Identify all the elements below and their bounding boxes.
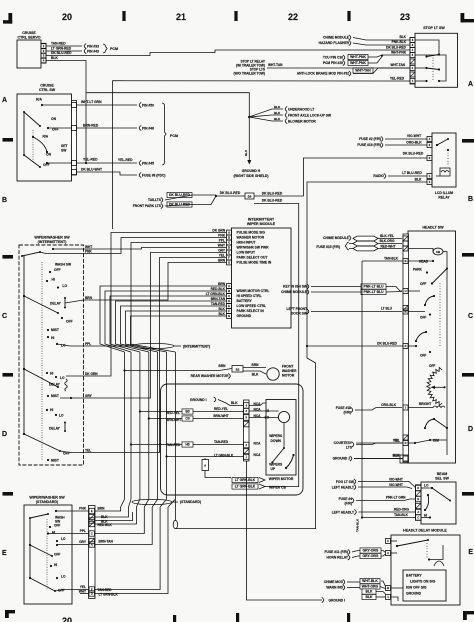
svg-text:BRN-RED: BRN-RED bbox=[83, 124, 99, 128]
svg-text:SET: SET bbox=[61, 144, 67, 148]
svg-text:C: C bbox=[228, 294, 230, 298]
svg-text:PPL: PPL bbox=[219, 239, 225, 243]
svg-text:DELAY: DELAY bbox=[50, 302, 62, 306]
svg-text:WHT-PNK: WHT-PNK bbox=[350, 55, 366, 59]
svg-text:LEFT FRONT: LEFT FRONT bbox=[286, 307, 307, 311]
svg-text:DK BLU-RED: DK BLU-RED bbox=[403, 152, 424, 156]
svg-text:PNK-BLK: PNK-BLK bbox=[392, 40, 407, 44]
svg-text:REAR WASHER MOTOR: REAR WASHER MOTOR bbox=[191, 374, 229, 378]
svg-text:IGN OFF SIG: IGN OFF SIG bbox=[406, 586, 427, 590]
svg-text:D: D bbox=[228, 299, 230, 303]
svg-text:GROUND H: GROUND H bbox=[242, 169, 261, 173]
svg-text:BLK-ORG: BLK-ORG bbox=[380, 239, 395, 243]
svg-text:TAILLTS: TAILLTS bbox=[148, 198, 162, 202]
svg-text:DK BLU-WHT: DK BLU-WHT bbox=[81, 168, 102, 172]
svg-text:(STANDARD): (STANDARD) bbox=[36, 500, 59, 504]
svg-text:BLK: BLK bbox=[366, 590, 374, 594]
svg-text:C: C bbox=[417, 516, 419, 520]
svg-text:CRUISE: CRUISE bbox=[40, 84, 54, 88]
svg-text:R/A: R/A bbox=[43, 135, 49, 139]
svg-text:PCM PIN #29: PCM PIN #29 bbox=[323, 61, 343, 65]
svg-text:A: A bbox=[204, 464, 206, 468]
svg-text:OFF: OFF bbox=[66, 320, 73, 324]
svg-text:GROUND J: GROUND J bbox=[333, 457, 351, 461]
svg-text:LO: LO bbox=[63, 284, 68, 288]
svg-text:OFF: OFF bbox=[420, 354, 426, 358]
svg-text:WHT-PNK: WHT-PNK bbox=[350, 61, 366, 65]
svg-text:(W/O TRAILER TOW): (W/O TRAILER TOW) bbox=[234, 72, 265, 76]
svg-text:PPL: PPL bbox=[80, 529, 86, 533]
svg-text:21: 21 bbox=[176, 12, 186, 22]
svg-text:DELAY: DELAY bbox=[49, 427, 61, 431]
svg-text:CTRL SERVO: CTRL SERVO bbox=[17, 36, 40, 40]
svg-text:CRUISE: CRUISE bbox=[22, 31, 36, 35]
svg-text:BRN-WHT: BRN-WHT bbox=[213, 414, 228, 418]
svg-text:PNK-LT GRN: PNK-LT GRN bbox=[386, 496, 406, 500]
svg-text:WIP/WSHR SW PWR: WIP/WSHR SW PWR bbox=[237, 246, 270, 250]
svg-text:BLK-YEL: BLK-YEL bbox=[380, 234, 394, 238]
svg-text:FUSE #11 (F/R): FUSE #11 (F/R) bbox=[325, 550, 348, 554]
svg-text:LEFT HEADLT: LEFT HEADLT bbox=[332, 486, 354, 490]
svg-text:(F/R): (F/R) bbox=[344, 502, 352, 506]
svg-text:SEL SW: SEL SW bbox=[435, 477, 449, 481]
svg-text:OFF: OFF bbox=[429, 364, 435, 368]
svg-text:WHT-TAN: WHT-TAN bbox=[355, 69, 371, 73]
svg-text:PPL: PPL bbox=[85, 342, 91, 346]
svg-text:CTRL SW: CTRL SW bbox=[39, 88, 56, 92]
svg-text:GROUND: GROUND bbox=[237, 314, 252, 318]
svg-text:WIPER/WASHER SW: WIPER/WASHER SW bbox=[34, 236, 70, 240]
svg-text:LOW SPEED CTRL: LOW SPEED CTRL bbox=[237, 304, 267, 308]
svg-text:OFF: OFF bbox=[54, 553, 60, 557]
svg-text:DK GRN: DK GRN bbox=[85, 372, 98, 376]
svg-text:D: D bbox=[468, 426, 473, 433]
svg-text:LO: LO bbox=[424, 484, 429, 488]
svg-text:WIPER CB: WIPER CB bbox=[269, 486, 287, 490]
svg-text:VIO-WHT: VIO-WHT bbox=[407, 134, 421, 138]
svg-text:WHT-ORG: WHT-ORG bbox=[362, 585, 379, 589]
svg-text:23: 23 bbox=[400, 12, 410, 22]
svg-text:A: A bbox=[417, 510, 419, 514]
svg-text:WHT-LT GRN: WHT-LT GRN bbox=[81, 100, 102, 104]
svg-text:C: C bbox=[228, 241, 230, 245]
svg-text:YEL-RED: YEL-RED bbox=[118, 158, 133, 162]
svg-text:OFF: OFF bbox=[420, 282, 426, 286]
svg-text:WASH SW: WASH SW bbox=[55, 263, 72, 267]
svg-text:TAN-RED: TAN-RED bbox=[214, 440, 229, 444]
svg-text:DK BLU-RED: DK BLU-RED bbox=[386, 46, 407, 50]
svg-text:ORG-BLK: ORG-BLK bbox=[381, 403, 397, 407]
svg-text:C: C bbox=[91, 532, 93, 536]
svg-text:SW: SW bbox=[61, 149, 67, 153]
svg-text:FUSE #2 (F/R): FUSE #2 (F/R) bbox=[359, 137, 381, 141]
svg-text:YEL-RED: YEL-RED bbox=[390, 76, 405, 80]
svg-text:GROUND I: GROUND I bbox=[190, 398, 207, 402]
svg-text:C3: C3 bbox=[185, 417, 189, 421]
svg-text:FRONT PARK LTS: FRONT PARK LTS bbox=[133, 204, 162, 208]
svg-text:FRONT: FRONT bbox=[282, 365, 293, 369]
svg-text:DK BLU-RED: DK BLU-RED bbox=[220, 191, 241, 195]
svg-text:FUSE #19 (F/R): FUSE #19 (F/R) bbox=[357, 143, 381, 147]
svg-text:HAZARD FLASHER: HAZARD FLASHER bbox=[319, 41, 350, 45]
svg-text:HI: HI bbox=[424, 514, 427, 518]
svg-text:G: G bbox=[228, 314, 230, 318]
svg-text:WSHR MOTOR CTRL: WSHR MOTOR CTRL bbox=[237, 289, 270, 293]
svg-text:DK GRN: DK GRN bbox=[212, 229, 225, 233]
svg-text:HIGH INPUT: HIGH INPUT bbox=[237, 241, 256, 245]
svg-text:PULSE MODE SIG: PULSE MODE SIG bbox=[237, 231, 266, 235]
svg-text:RADIO: RADIO bbox=[373, 174, 384, 178]
svg-text:BRN-TAN: BRN-TAN bbox=[99, 539, 114, 543]
svg-text:A: A bbox=[468, 81, 473, 88]
svg-text:GRY-ORG: GRY-ORG bbox=[363, 554, 379, 558]
svg-text:WHT: WHT bbox=[85, 245, 92, 249]
svg-text:LTS: LTS bbox=[346, 446, 353, 450]
svg-text:PIN #50: PIN #50 bbox=[142, 104, 154, 108]
svg-text:UP: UP bbox=[271, 467, 276, 471]
svg-text:DK BLU-RED: DK BLU-RED bbox=[51, 51, 72, 55]
svg-text:WIPERS: WIPERS bbox=[269, 434, 283, 438]
svg-text:ORG-BLK: ORG-BLK bbox=[406, 141, 422, 145]
svg-text:GRY: GRY bbox=[218, 249, 226, 253]
svg-text:WASHER: WASHER bbox=[282, 369, 297, 373]
svg-text:HI: HI bbox=[51, 336, 54, 340]
svg-text:WARN IND: WARN IND bbox=[326, 586, 343, 590]
svg-text:DK BLU-RED: DK BLU-RED bbox=[262, 199, 283, 203]
svg-text:B: B bbox=[387, 586, 389, 590]
svg-text:DK BLU-RED: DK BLU-RED bbox=[262, 192, 283, 196]
svg-text:COURTESY: COURTESY bbox=[334, 441, 353, 445]
svg-text:WIPER MODULE: WIPER MODULE bbox=[247, 222, 276, 226]
svg-text:ANTI-LOCK BRAKE MOD PIN #32: ANTI-LOCK BRAKE MOD PIN #32 bbox=[297, 72, 349, 76]
svg-text:B3: B3 bbox=[185, 410, 189, 414]
svg-text:FUSE #8 (PDC): FUSE #8 (PDC) bbox=[142, 174, 165, 178]
svg-text:RED-WHT: RED-WHT bbox=[380, 244, 395, 248]
svg-text:(INTERMITTENT): (INTERMITTENT) bbox=[183, 345, 210, 349]
svg-text:HI: HI bbox=[50, 408, 53, 412]
svg-text:BRN: BRN bbox=[85, 296, 93, 300]
svg-text:A: A bbox=[2, 97, 7, 104]
svg-text:HI: HI bbox=[50, 372, 53, 376]
svg-text:WIPER MOTOR: WIPER MOTOR bbox=[269, 477, 294, 481]
svg-text:CHIME MODULE: CHIME MODULE bbox=[323, 36, 350, 40]
svg-text:PIN #45: PIN #45 bbox=[142, 162, 154, 166]
svg-text:BLK: BLK bbox=[231, 401, 238, 405]
svg-text:22: 22 bbox=[288, 12, 298, 22]
svg-text:TAN-RED: TAN-RED bbox=[51, 42, 66, 46]
svg-text:WIPER/WASHER SW: WIPER/WASHER SW bbox=[29, 496, 65, 500]
svg-text:LO: LO bbox=[60, 376, 65, 380]
svg-text:VIO-WHT: VIO-WHT bbox=[389, 478, 403, 482]
svg-text:BLK: BLK bbox=[274, 111, 281, 115]
svg-text:UNDERHOOD LT: UNDERHOOD LT bbox=[288, 107, 314, 111]
svg-text:LO: LO bbox=[59, 414, 64, 418]
svg-text:MIST: MIST bbox=[51, 459, 59, 463]
svg-text:PNK-LT BLU: PNK-LT BLU bbox=[363, 290, 384, 294]
svg-text:BLK: BLK bbox=[393, 454, 400, 458]
svg-text:D: D bbox=[91, 592, 93, 596]
svg-text:YEL: YEL bbox=[85, 449, 91, 453]
svg-text:PARK SELECT IN: PARK SELECT IN bbox=[237, 309, 265, 313]
svg-text:D: D bbox=[2, 431, 7, 438]
svg-text:PARK: PARK bbox=[413, 268, 422, 272]
svg-text:GRY: GRY bbox=[79, 540, 87, 544]
svg-text:C: C bbox=[468, 313, 473, 320]
svg-text:HI: HI bbox=[54, 563, 57, 567]
svg-text:PCM: PCM bbox=[170, 134, 178, 138]
svg-text:PIN #46: PIN #46 bbox=[142, 127, 154, 131]
svg-text:LCD ILLUM: LCD ILLUM bbox=[435, 191, 453, 195]
svg-text:VIO-WHT: VIO-WHT bbox=[389, 483, 403, 487]
svg-text:FUSE #18: FUSE #18 bbox=[336, 406, 351, 410]
svg-text:LT GRN-BLK: LT GRN-BLK bbox=[99, 592, 119, 596]
svg-text:WHT-TAN: WHT-TAN bbox=[391, 63, 406, 67]
svg-text:PARK SELECT OUT: PARK SELECT OUT bbox=[237, 256, 268, 260]
svg-text:GRY-ORG: GRY-ORG bbox=[363, 549, 379, 553]
svg-text:PNK-LT BLU: PNK-LT BLU bbox=[363, 285, 384, 289]
svg-text:WHT-BLK: WHT-BLK bbox=[362, 579, 378, 583]
svg-text:B: B bbox=[228, 236, 230, 240]
svg-text:YEL: YEL bbox=[394, 439, 400, 443]
svg-text:TAN-BLK: TAN-BLK bbox=[384, 257, 399, 261]
svg-text:NCA: NCA bbox=[254, 442, 262, 446]
svg-text:H3: H3 bbox=[185, 443, 189, 447]
svg-text:PIN #43: PIN #43 bbox=[87, 50, 99, 54]
svg-text:LT GRN-BLK: LT GRN-BLK bbox=[235, 478, 256, 482]
svg-text:BATTERY: BATTERY bbox=[406, 574, 422, 578]
svg-text:G: G bbox=[91, 519, 93, 523]
svg-text:E: E bbox=[228, 251, 230, 255]
svg-text:B6: B6 bbox=[248, 195, 252, 199]
svg-text:PNK: PNK bbox=[79, 507, 86, 511]
svg-text:E: E bbox=[468, 549, 473, 556]
svg-text:ON: ON bbox=[46, 153, 52, 157]
svg-text:(F/R): (F/R) bbox=[343, 411, 351, 415]
svg-text:MOTOR: MOTOR bbox=[282, 374, 295, 378]
svg-text:LT BLU: LT BLU bbox=[381, 307, 393, 311]
svg-text:FUSE #4: FUSE #4 bbox=[339, 497, 353, 501]
svg-text:TAN-BLK: TAN-BLK bbox=[356, 518, 360, 532]
svg-text:WHT-TAN: WHT-TAN bbox=[268, 63, 283, 67]
svg-text:STOP LT SW: STOP LT SW bbox=[423, 26, 445, 30]
svg-text:DK BLU-RED: DK BLU-RED bbox=[169, 193, 191, 197]
svg-text:OFF: OFF bbox=[54, 268, 61, 272]
svg-text:B: B bbox=[417, 497, 419, 501]
svg-text:A: A bbox=[228, 284, 230, 288]
svg-text:BLK: BLK bbox=[399, 35, 406, 39]
svg-text:BLK: BLK bbox=[366, 595, 374, 599]
svg-text:WHT-PNK: WHT-PNK bbox=[391, 51, 407, 55]
svg-text:HI: HI bbox=[52, 278, 55, 282]
svg-text:LT GRN-RED: LT GRN-RED bbox=[51, 47, 72, 51]
svg-text:LOW INPUT: LOW INPUT bbox=[237, 251, 256, 255]
svg-text:(RIGHT SIDE SHIELD): (RIGHT SIDE SHIELD) bbox=[233, 174, 268, 178]
svg-text:FOG LT SW: FOG LT SW bbox=[336, 480, 355, 484]
svg-text:BRN: BRN bbox=[98, 507, 106, 511]
svg-text:U: U bbox=[405, 289, 407, 293]
svg-text:GROUND: GROUND bbox=[406, 592, 422, 596]
svg-text:GRY: GRY bbox=[85, 394, 93, 398]
svg-text:GROUND I: GROUND I bbox=[329, 599, 346, 603]
svg-text:M: M bbox=[404, 310, 406, 314]
svg-text:MIST: MIST bbox=[51, 328, 59, 332]
svg-text:B: B bbox=[2, 197, 7, 204]
svg-text:LEFT HEADLT: LEFT HEADLT bbox=[332, 511, 354, 515]
svg-text:G: G bbox=[228, 261, 230, 265]
svg-text:BLK: BLK bbox=[274, 117, 281, 121]
svg-text:BLK: BLK bbox=[244, 149, 248, 156]
svg-text:R/A: R/A bbox=[36, 98, 42, 102]
svg-text:DIM: DIM bbox=[433, 439, 439, 443]
svg-text:RELAY: RELAY bbox=[438, 196, 450, 200]
svg-text:C: C bbox=[2, 313, 7, 320]
svg-text:BRN: BRN bbox=[252, 363, 260, 367]
svg-text:A: A bbox=[91, 543, 93, 547]
svg-text:PIN #33: PIN #33 bbox=[87, 45, 99, 49]
svg-text:E: E bbox=[2, 550, 7, 557]
svg-text:B: B bbox=[468, 196, 473, 203]
svg-text:LT GRN-BLK: LT GRN-BLK bbox=[235, 485, 256, 489]
svg-text:LIGHTS ON SIG: LIGHTS ON SIG bbox=[410, 580, 436, 584]
svg-text:OFF: OFF bbox=[420, 316, 426, 320]
svg-text:OFF: OFF bbox=[54, 524, 60, 528]
svg-text:B2: B2 bbox=[236, 367, 240, 371]
svg-text:CHIME MODULE: CHIME MODULE bbox=[281, 290, 308, 294]
svg-text:PNK: PNK bbox=[85, 250, 92, 254]
svg-text:PCM: PCM bbox=[110, 47, 118, 51]
svg-text:WASHER MOTOR: WASHER MOTOR bbox=[237, 236, 265, 240]
svg-text:WHT: WHT bbox=[218, 244, 225, 248]
svg-text:INTERMITTENT: INTERMITTENT bbox=[248, 218, 275, 222]
svg-text:E: E bbox=[91, 509, 93, 513]
svg-text:FRONT AXLE LOCK-UP SW: FRONT AXLE LOCK-UP SW bbox=[288, 113, 332, 117]
svg-text:MIST: MIST bbox=[51, 394, 59, 398]
svg-text:B: B bbox=[228, 289, 230, 293]
svg-text:TCU PIN C10: TCU PIN C10 bbox=[323, 56, 343, 60]
svg-text:LO: LO bbox=[61, 537, 66, 541]
svg-text:TAN-BLK: TAN-BLK bbox=[394, 513, 409, 517]
svg-text:WIPERS: WIPERS bbox=[269, 463, 283, 467]
svg-text:BEAM: BEAM bbox=[437, 472, 448, 476]
svg-text:CHIME MODULE: CHIME MODULE bbox=[323, 236, 350, 240]
svg-text:LO: LO bbox=[61, 575, 66, 579]
svg-text:RED-ORG: RED-ORG bbox=[394, 507, 410, 511]
svg-text:HORN RELAY: HORN RELAY bbox=[327, 556, 349, 560]
svg-text:BLK: BLK bbox=[274, 105, 281, 109]
svg-text:BLK: BLK bbox=[415, 178, 422, 182]
svg-text:20: 20 bbox=[62, 616, 72, 622]
svg-text:CHIME MOD: CHIME MOD bbox=[324, 580, 344, 584]
svg-text:LT BLU-RED: LT BLU-RED bbox=[402, 171, 422, 175]
svg-text:RED-YEL: RED-YEL bbox=[214, 407, 228, 411]
svg-text:BRIGHT: BRIGHT bbox=[419, 402, 431, 406]
svg-text:B: B bbox=[405, 259, 407, 263]
svg-text:D: D bbox=[228, 246, 230, 250]
svg-text:BLOWER MOTOR: BLOWER MOTOR bbox=[288, 119, 316, 123]
svg-text:BRN: BRN bbox=[219, 364, 227, 368]
svg-text:DOOR SW: DOOR SW bbox=[291, 312, 308, 316]
svg-text:A: A bbox=[228, 231, 230, 235]
svg-text:FUSE #15 (F/R): FUSE #15 (F/R) bbox=[316, 245, 340, 249]
svg-text:PNK: PNK bbox=[218, 234, 225, 238]
svg-text:(STANDARD): (STANDARD) bbox=[180, 500, 201, 504]
svg-text:E: E bbox=[228, 304, 230, 308]
svg-text:20: 20 bbox=[62, 12, 72, 22]
svg-text:DOWN: DOWN bbox=[271, 439, 282, 443]
svg-text:D: D bbox=[417, 486, 419, 490]
svg-text:NCA: NCA bbox=[254, 453, 262, 457]
svg-text:YEL-RED: YEL-RED bbox=[83, 158, 98, 162]
svg-text:BLK: BLK bbox=[252, 373, 259, 377]
svg-text:R: R bbox=[405, 344, 407, 348]
svg-text:KEY IN IGN SW: KEY IN IGN SW bbox=[283, 285, 308, 289]
svg-text:HI SPEED CTRL: HI SPEED CTRL bbox=[237, 294, 262, 298]
svg-text:HEADLT SW: HEADLT SW bbox=[422, 226, 444, 230]
svg-text:HEADLT DELAY MODULE: HEADLT DELAY MODULE bbox=[403, 529, 447, 533]
svg-text:BLK: BLK bbox=[51, 56, 58, 60]
svg-text:(INTERMITTENT): (INTERMITTENT) bbox=[38, 240, 68, 244]
svg-text:BATTERY: BATTERY bbox=[237, 299, 253, 303]
svg-text:D: D bbox=[405, 441, 407, 445]
svg-text:DK BLU-RED: DK BLU-RED bbox=[377, 342, 398, 346]
svg-text:HI: HI bbox=[52, 531, 55, 535]
svg-text:PULSE MODE TIME IN: PULSE MODE TIME IN bbox=[237, 261, 272, 265]
svg-text:ON: ON bbox=[51, 117, 57, 121]
